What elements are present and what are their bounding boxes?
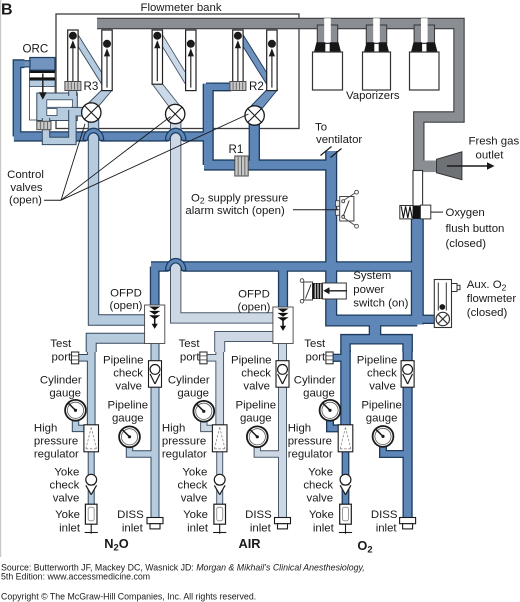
float and arrow tube 1 left	[72, 46, 74, 81]
control valve 2 (circle-X)	[166, 104, 185, 123]
float and arrow tube 1 right	[106, 54, 108, 88]
svg-text:flush button: flush button	[446, 223, 505, 235]
O2 yoke check valve	[340, 485, 351, 494]
aux O2 flowmeter stub	[421, 316, 437, 323]
svg-text:inlet: inlet	[376, 522, 398, 534]
svg-text:pressure: pressure	[34, 436, 78, 448]
svg-text:outlet: outlet	[476, 150, 505, 162]
svg-text:valve: valve	[181, 493, 208, 505]
ORC piston light bar	[30, 80, 56, 86]
flowmeter pair 3 connector band to valve 3	[252, 90, 278, 108]
ORC lower U loop pipe	[46, 110, 72, 141]
svg-text:DISS: DISS	[245, 509, 272, 521]
AIR pipeline gauge stub	[257, 445, 283, 454]
svg-text:R3: R3	[84, 80, 99, 93]
svg-text:Pipeline: Pipeline	[231, 355, 272, 367]
svg-text:Test: Test	[50, 338, 72, 350]
control valve 1 (circle-X)	[82, 103, 101, 122]
OFPD supply horizontal pipe left segment	[151, 263, 169, 271]
svg-text:gauge: gauge	[303, 388, 335, 400]
crossover arch over AIR riser on main O2 pipe	[166, 128, 186, 140]
svg-text:port: port	[52, 351, 72, 363]
svg-text:(open): (open)	[9, 195, 42, 207]
AIR DISS inlet	[275, 518, 291, 524]
N2O piping: pipe outlines	[76, 104, 157, 518]
N2O OFPD chevrons and arrow	[149, 307, 160, 311]
svg-text:(closed): (closed)	[446, 238, 487, 250]
svg-text:inlet: inlet	[59, 522, 81, 534]
ORC outlet pipe to control valve 1	[71, 108, 84, 116]
flow control knob R2	[230, 82, 246, 91]
svg-text:High: High	[34, 423, 57, 435]
svg-text:DISS: DISS	[371, 509, 398, 521]
oxygen flush spring	[400, 206, 413, 219]
R2 branch vertical pipe	[204, 84, 213, 165]
N2O pipeline supply vertical pipe	[152, 338, 159, 518]
O2 supply pressure alarm switch body	[340, 197, 354, 222]
ORC cylinder housing	[30, 70, 56, 120]
alarm switch leader line	[293, 209, 338, 211]
system power switch contacts and body	[300, 279, 304, 283]
N2O pipeline gauge	[119, 426, 140, 447]
oxygen flush button cap	[420, 205, 430, 219]
svg-text:valve: valve	[53, 493, 80, 505]
svg-text:Pipeline: Pipeline	[108, 400, 149, 412]
AIR pipeline supply vertical pipe	[279, 336, 286, 518]
O2 column header pipe	[346, 339, 408, 352]
flowmeter tube 3 left	[233, 30, 243, 84]
N2O DISS inlet	[147, 518, 163, 524]
control valve 3 (circle-X)	[245, 106, 264, 125]
svg-text:valve: valve	[307, 493, 334, 505]
ORC loop piping: pipe outlines	[46, 91, 84, 141]
ORC down arrow	[42, 74, 44, 94]
N2O test port stub	[78, 355, 92, 361]
svg-text:(open): (open)	[238, 301, 271, 313]
N2O pipeline gauge stub	[130, 445, 157, 454]
empty white pipe above flush button	[413, 171, 423, 207]
vaporizer 3 inlet/outlet risers	[414, 25, 434, 44]
O2 cylinder gauge stub	[330, 418, 339, 428]
oxygen flush leader line	[431, 211, 443, 213]
flow control knob R1	[235, 156, 248, 176]
svg-text:regulator: regulator	[162, 449, 207, 461]
svg-text:Vaporizers: Vaporizers	[346, 90, 400, 102]
AIR test port	[200, 352, 207, 364]
svg-text:pressure: pressure	[162, 436, 206, 448]
to-ventilator pipe break marks	[321, 147, 332, 156]
svg-text:valve: valve	[369, 381, 396, 393]
O2 test port stub	[332, 355, 347, 361]
vaporizer 1 black cap	[314, 42, 325, 52]
svg-text:inlet: inlet	[122, 522, 144, 534]
svg-text:regulator: regulator	[288, 449, 333, 461]
AIR column header pipe	[220, 337, 283, 353]
svg-text:flowmeter: flowmeter	[467, 293, 517, 305]
svg-text:gauge: gauge	[112, 413, 144, 425]
svg-text:Cylinder: Cylinder	[294, 375, 336, 387]
svg-text:Cylinder: Cylinder	[168, 375, 210, 387]
N2O cylinder-side vertical pipe	[88, 338, 95, 426]
AIR pipeline check valve	[276, 361, 289, 388]
svg-text:Copyright © The McGraw-Hill Co: Copyright © The McGraw-Hill Companies, I…	[1, 592, 256, 602]
to-ventilator vertical pipe and bottom run	[331, 151, 417, 321]
left edge border	[0, 0, 1, 557]
svg-text:Pipeline: Pipeline	[361, 400, 402, 412]
AIR OFPD body	[273, 307, 293, 344]
svg-text:Yoke: Yoke	[183, 509, 208, 521]
AIR pipeline gauge	[247, 426, 268, 447]
svg-text:power: power	[353, 284, 384, 296]
svg-text:(open): (open)	[110, 300, 143, 312]
AIR cylinder-side vertical pipe	[216, 336, 223, 426]
svg-text:R2: R2	[249, 80, 264, 93]
main O2 horizontal pipe left segment	[14, 132, 87, 140]
control valve 3 outlet pipe	[250, 122, 259, 162]
N2O high pressure regulator	[84, 425, 99, 452]
svg-text:Yoke: Yoke	[309, 509, 334, 521]
svg-text:valves: valves	[10, 182, 43, 194]
vaporizer 2 body	[363, 52, 391, 90]
svg-text:Pipeline: Pipeline	[236, 400, 277, 412]
N2O riser from OFPD outlet up to control valve 1	[94, 104, 152, 320]
oxygen flush black block	[413, 206, 420, 219]
svg-text:inlet: inlet	[250, 522, 272, 534]
svg-text:inlet: inlet	[313, 522, 335, 534]
svg-text:(closed): (closed)	[467, 307, 508, 319]
AIR cylinder gauge	[193, 401, 214, 422]
aux O2 flowmeter tube and float	[437, 283, 439, 311]
svg-text:Control: Control	[7, 169, 44, 181]
fresh gas outlet funnel	[420, 161, 437, 173]
svg-text:ORC: ORC	[23, 43, 49, 56]
svg-text:valve: valve	[115, 381, 142, 393]
svg-text:System: System	[353, 270, 391, 282]
O2 down stub to column header	[370, 322, 380, 340]
svg-text:O2 supply pressure: O2 supply pressure	[191, 192, 288, 205]
gray manifold pipe from flowmeters to vaporizers and down right side	[97, 24, 459, 173]
svg-text:gauge: gauge	[49, 388, 81, 400]
O2 test port	[326, 352, 333, 364]
ORC pipe stub to knob R3	[69, 91, 76, 96]
vaporizer 2 manifold slot gap	[373, 18, 380, 42]
N2O yoke check valve	[86, 485, 97, 494]
svg-text:Oxygen: Oxygen	[446, 207, 485, 219]
N2O yoke inlet	[85, 504, 97, 524]
svg-text:DISS: DISS	[117, 509, 144, 521]
svg-text:ventilator: ventilator	[316, 134, 362, 146]
O2 pipeline supply vertical pipe	[404, 350, 412, 518]
ORC body plumbing block	[37, 93, 78, 121]
N2O cylinder gauge stub	[76, 418, 86, 428]
svg-text:check: check	[241, 368, 271, 380]
flowmeter pair 2 connector band to valve 2	[152, 84, 180, 108]
AIR OFPD chevrons and arrow	[277, 309, 288, 313]
gray fresh gas piping: pipe outlines	[97, 24, 459, 173]
AIR test port stub	[207, 355, 221, 361]
svg-text:valve: valve	[243, 381, 270, 393]
main O2 horizontal pipe right segment	[183, 132, 209, 140]
svg-text:gauge: gauge	[177, 388, 209, 400]
svg-text:check: check	[113, 368, 143, 380]
vaporizer 1 body	[313, 52, 343, 90]
AIR riser from OFPD outlet up to control valve 2	[176, 106, 278, 318]
AIR yoke check valve	[214, 485, 225, 494]
svg-text:Yoke: Yoke	[308, 466, 333, 478]
svg-text:check: check	[178, 480, 208, 492]
aux O2 flowmeter valve (circle-X)	[436, 312, 449, 325]
N2O cylinder gauge	[65, 400, 86, 421]
crossover arch over AIR riser on OFPD supply pipe	[166, 258, 186, 270]
ORC inlet nipple	[24, 61, 30, 67]
float and arrow tube 3 right	[271, 54, 273, 88]
svg-text:OFPD: OFPD	[110, 287, 142, 299]
svg-text:check: check	[367, 368, 397, 380]
svg-text:To: To	[315, 122, 327, 134]
system power switch actuator box	[323, 283, 347, 299]
O2 yoke inlet	[340, 504, 352, 524]
flow control knob R3	[65, 82, 81, 91]
main O2 horizontal pipe middle segment	[101, 132, 169, 140]
svg-text:Test: Test	[179, 338, 201, 350]
fresh gas outlet arrow	[447, 165, 488, 167]
vaporizer 2 inlet/outlet risers	[366, 25, 386, 44]
N2O test port	[72, 352, 79, 364]
AIR cylinder gauge stub	[204, 418, 213, 428]
svg-text:pressure: pressure	[288, 436, 332, 448]
O2 pipeline check valve	[401, 361, 414, 388]
ORC adjustment knob	[37, 121, 51, 129]
svg-text:port: port	[180, 351, 200, 363]
N2O column header pipe	[91, 338, 155, 352]
N2O OFPD body	[145, 305, 165, 344]
svg-text:gauge: gauge	[366, 413, 398, 425]
alarm switch connection stubs	[336, 201, 340, 207]
svg-text:Yoke: Yoke	[182, 466, 207, 478]
svg-text:inlet: inlet	[187, 522, 209, 534]
float and arrow tube 3 left	[237, 46, 239, 81]
R1 horizontal pipe to ventilator tee	[204, 161, 332, 170]
svg-text:Test: Test	[304, 338, 326, 350]
O2 main piping: pipe outlines	[14, 64, 437, 518]
crossover arch over N2O riser on main O2 pipe	[83, 128, 103, 140]
svg-text:High: High	[288, 423, 311, 435]
AIR high pressure regulator	[212, 425, 227, 452]
svg-text:alarm switch (open): alarm switch (open)	[185, 205, 285, 217]
svg-text:Aux. O2: Aux. O2	[467, 279, 507, 292]
svg-text:port: port	[306, 351, 326, 363]
O2 cylinder gauge	[320, 400, 341, 421]
svg-text:check: check	[303, 480, 333, 492]
O2 high pressure regulator	[338, 425, 353, 452]
svg-text:check: check	[50, 480, 80, 492]
svg-text:Yoke: Yoke	[55, 509, 80, 521]
vaporizer 2 black cap	[364, 42, 374, 52]
svg-text:switch (on): switch (on)	[353, 297, 408, 309]
OFPD supply horizontal pipe right segment	[183, 263, 418, 271]
svg-text:5th Edition: www.accessmedicin: 5th Edition: www.accessmedicine.com	[1, 572, 150, 582]
N2O OFPD pilot branch pipe	[151, 267, 158, 308]
system power switch solenoid coil	[313, 283, 323, 299]
svg-text:R1: R1	[229, 143, 244, 156]
float and arrow tube 2 left	[156, 46, 158, 81]
AIR pipe below regulator to yoke	[217, 450, 222, 505]
oxygen flush vertical pipe	[412, 218, 422, 324]
flowmeter bank enclosure box	[56, 14, 299, 129]
svg-text:gauge: gauge	[240, 413, 272, 425]
vaporizer 1 inlet/outlet risers	[317, 25, 337, 44]
svg-text:AIR: AIR	[238, 536, 260, 551]
svg-text:OFPD: OFPD	[238, 289, 270, 301]
vaporizer 3 manifold slot gap	[421, 18, 428, 42]
flowmeter pair 2 diagonal band	[163, 35, 186, 85]
svg-text:Flowmeter bank: Flowmeter bank	[140, 2, 221, 14]
svg-text:Cylinder: Cylinder	[40, 375, 82, 387]
ORC piston black bars	[30, 70, 56, 73]
flowmeter pair 1 connector band to valve 1	[87, 90, 113, 108]
flowmeter pair 1 diagonal band	[78, 35, 102, 85]
O2 cylinder-side vertical pipe	[342, 350, 350, 426]
flowmeter tube 1 right	[102, 30, 112, 91]
control valves leader lines	[44, 199, 61, 201]
N2O pipe below regulator to yoke	[89, 450, 94, 505]
pipe stub from flow control knob R2	[206, 84, 231, 90]
O2 pipeline gauge stub	[383, 445, 409, 454]
svg-text:regulator: regulator	[34, 449, 79, 461]
AIR OFPD pilot branch pipe	[279, 267, 287, 309]
N2O pipeline check valve	[149, 361, 162, 388]
svg-text:Fresh gas: Fresh gas	[469, 136, 520, 148]
flowmeter tube 1 left	[68, 30, 78, 84]
vaporizer 3 body	[410, 52, 440, 90]
flowmeter pair 3 diagonal band	[243, 35, 267, 85]
pipe from ORC inlet down left side	[17, 64, 25, 137]
float and arrow tube 2 right	[190, 54, 192, 88]
flowmeter tube 2 right	[186, 30, 196, 91]
ORC top chamber (blue)	[30, 58, 55, 71]
svg-text:Pipeline: Pipeline	[103, 355, 144, 367]
vaporizer 1 manifold slot gap	[324, 18, 331, 42]
svg-text:Pipeline: Pipeline	[357, 355, 398, 367]
AIR yoke inlet	[214, 504, 226, 524]
vaporizer 3 black cap	[411, 42, 422, 52]
svg-text:High: High	[162, 423, 185, 435]
svg-text:B: B	[1, 2, 13, 19]
flowmeter tube 3 right	[267, 30, 277, 91]
svg-text:Yoke: Yoke	[54, 466, 79, 478]
AIR piping: pipe outlines	[176, 106, 284, 518]
O2 pipeline gauge	[373, 426, 394, 447]
flowmeter tube 2 left	[152, 30, 162, 84]
O2 pipe below regulator to yoke	[343, 450, 348, 505]
aux O2 flowmeter body	[434, 280, 451, 328]
O2 DISS inlet	[400, 518, 416, 524]
